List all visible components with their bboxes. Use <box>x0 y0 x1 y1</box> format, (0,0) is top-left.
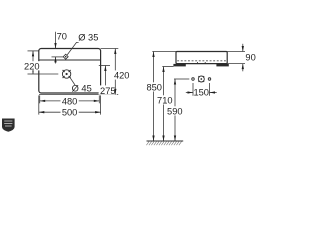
supply connection left <box>192 78 195 81</box>
basin top view outline <box>39 49 101 94</box>
logo mark <box>2 119 15 132</box>
dimension 710 <box>156 67 174 142</box>
tap hole <box>63 54 68 59</box>
tap hole centerline <box>52 56 64 58</box>
hidden bowl line <box>177 60 226 62</box>
svg-text:Ø 35: Ø 35 <box>78 33 98 43</box>
svg-text:710: 710 <box>157 96 173 106</box>
dimension 90 <box>227 44 256 72</box>
dimension 500 <box>39 95 101 117</box>
dimension 420 <box>101 49 131 95</box>
svg-text:150: 150 <box>193 88 209 98</box>
dimension 220 <box>23 51 41 74</box>
svg-text:220: 220 <box>24 61 40 71</box>
dimension 150 <box>186 83 217 98</box>
floor line <box>147 140 184 142</box>
svg-text:500: 500 <box>62 108 78 118</box>
drain centerline <box>39 73 58 75</box>
basin side view outline <box>176 52 227 64</box>
floor hatching <box>146 142 181 146</box>
leader diameter 45 <box>70 77 75 85</box>
svg-text:70: 70 <box>57 32 67 42</box>
basin front extension line <box>39 93 118 95</box>
mounting bracket left <box>173 64 185 67</box>
drain top view <box>62 70 70 78</box>
dimension 480 <box>40 95 100 106</box>
supply connection right <box>208 78 211 81</box>
hidden drain stubs under basin <box>196 62 198 64</box>
dimension 590 <box>166 79 184 141</box>
leader diameter 35 <box>67 42 78 55</box>
dimension 850 <box>145 52 176 142</box>
dimension 70 upper line <box>55 32 57 49</box>
dimension 275 <box>99 66 117 97</box>
svg-text:420: 420 <box>114 71 130 81</box>
connections centerline <box>174 78 189 80</box>
basin rim line <box>39 59 101 61</box>
svg-text:850: 850 <box>146 83 162 93</box>
svg-text:275: 275 <box>100 86 116 96</box>
svg-text:480: 480 <box>62 96 78 106</box>
dimension 70 lower arrow <box>55 57 57 64</box>
svg-text:Ø 45: Ø 45 <box>72 84 92 94</box>
svg-text:90: 90 <box>245 53 255 63</box>
drain connection <box>198 76 204 82</box>
mounting bracket right <box>216 64 228 67</box>
svg-text:590: 590 <box>167 107 183 117</box>
